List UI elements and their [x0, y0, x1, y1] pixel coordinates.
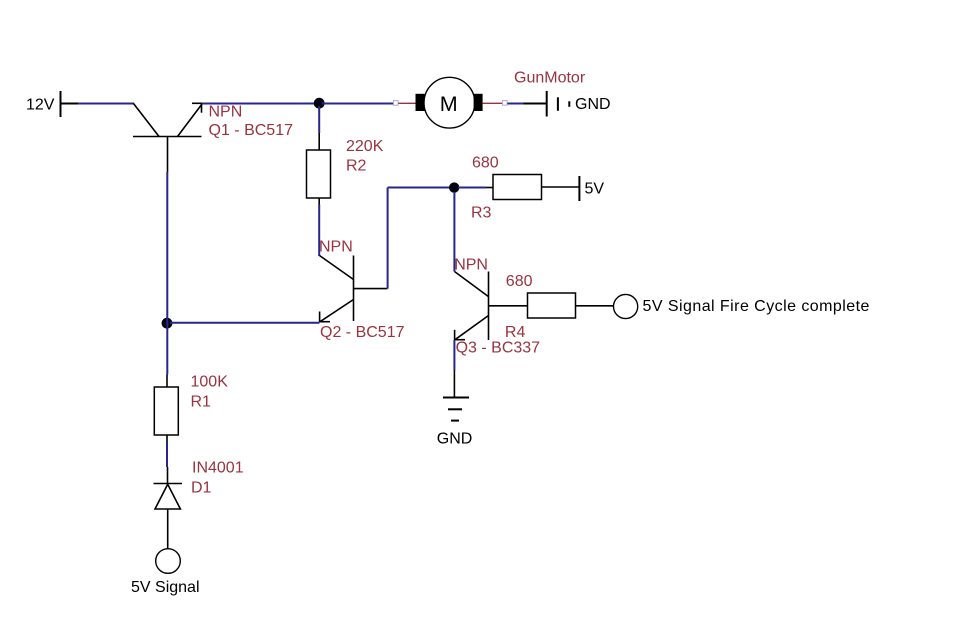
wire node to Q2 emitter blue	[170, 322, 320, 324]
apostrophe tick	[568, 101, 570, 107]
resistor R2	[307, 150, 331, 198]
wire motor to GND blue	[507, 103, 523, 105]
wire R1 to D1 blue	[166, 442, 168, 467]
wire node to R3 blue	[458, 187, 486, 189]
svg-text:NPN: NPN	[454, 256, 488, 273]
GND terminal bar	[546, 91, 548, 117]
12V supply terminal bar	[60, 91, 62, 117]
input terminal circle	[156, 549, 181, 574]
svg-text:5V: 5V	[585, 181, 605, 198]
wire Q2 base up blue	[387, 188, 389, 289]
transistor Q2 - BC517	[319, 256, 387, 323]
wire node down to Q3 blue	[453, 192, 455, 272]
D1 bottom lead black	[167, 509, 169, 548]
wire R2 to Q2 collector blue	[318, 205, 320, 257]
svg-text:R4: R4	[505, 324, 526, 341]
wire 12V to Q1 collector blue	[78, 103, 134, 105]
transistor Q1 - BC517	[133, 103, 202, 172]
svg-text:R1: R1	[191, 393, 212, 410]
R3 right lead black	[542, 186, 580, 188]
output terminal circle	[614, 294, 638, 318]
wire motor lead left red	[398, 102, 415, 104]
selection handle right	[503, 101, 508, 106]
diode D1	[154, 484, 183, 510]
svg-text:Q3 - BC337: Q3 - BC337	[456, 340, 541, 357]
svg-text:M: M	[440, 92, 458, 116]
svg-text:D1: D1	[191, 479, 212, 496]
svg-text:5V Signal: 5V Signal	[131, 579, 200, 596]
R1 top lead black	[166, 375, 168, 388]
svg-text:IN4001: IN4001	[192, 459, 244, 476]
svg-text:100K: 100K	[191, 374, 229, 391]
5V terminal bar	[578, 176, 580, 201]
svg-text:680: 680	[506, 273, 533, 290]
R3 left lead black	[486, 187, 493, 189]
R1 bottom lead black	[166, 435, 168, 442]
svg-text:12V: 12V	[26, 96, 55, 113]
wire motor lead right red	[483, 102, 503, 104]
motor M1	[416, 77, 483, 128]
text cursor bar	[557, 97, 559, 111]
resistor R1	[154, 387, 178, 435]
svg-text:GunMotor: GunMotor	[514, 69, 586, 86]
R2 top lead black	[318, 133, 320, 150]
D1 top lead black	[167, 467, 169, 484]
ground symbol	[443, 398, 469, 421]
selection handle left	[394, 101, 399, 106]
wire to ground black	[453, 370, 455, 398]
svg-text:R2: R2	[346, 157, 367, 174]
svg-text:GND: GND	[575, 96, 611, 113]
R4 right lead black	[576, 305, 614, 307]
svg-text:220K: 220K	[346, 138, 384, 155]
wire Q3 emitter down blue	[453, 340, 455, 370]
svg-text:GND: GND	[437, 430, 473, 447]
wire Q1 emitter to motor node blue	[202, 103, 316, 105]
svg-text:680: 680	[472, 154, 499, 171]
svg-text:R3: R3	[471, 205, 492, 222]
node junction dot Q1 base	[162, 318, 173, 329]
wire 12V lead black	[61, 103, 79, 105]
resistor R3	[493, 175, 542, 200]
wire to R3 node blue	[388, 187, 454, 189]
svg-text:NPN: NPN	[319, 239, 353, 256]
svg-text:5V Signal Fire Cycle complete: 5V Signal Fire Cycle complete	[643, 298, 870, 315]
svg-text:Q1 - BC517: Q1 - BC517	[209, 122, 294, 139]
wire GND lead black	[524, 103, 547, 105]
node junction dot R3	[449, 182, 459, 192]
R2 bottom lead black	[318, 198, 320, 205]
wire Q1 base down blue	[166, 172, 168, 375]
svg-text:Q2 - BC517: Q2 - BC517	[320, 324, 405, 341]
svg-text:NPN: NPN	[209, 103, 243, 120]
wire node to R2 blue	[318, 106, 320, 133]
wire node to motor handle blue	[322, 103, 394, 105]
resistor R4	[528, 293, 576, 318]
node junction dot motor branch	[314, 98, 325, 109]
transistor Q3 - BC337	[454, 272, 527, 341]
